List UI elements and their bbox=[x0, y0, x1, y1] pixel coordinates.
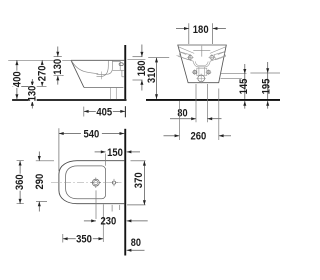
plan outer outline bbox=[59, 161, 124, 204]
svg-text:130: 130 bbox=[27, 86, 39, 102]
svg-text:80: 80 bbox=[131, 237, 141, 249]
svg-text:370: 370 bbox=[133, 172, 145, 188]
svg-text:195: 195 bbox=[260, 79, 272, 95]
waste pipe lines below bidet (side) bbox=[111, 87, 117, 99]
reference line A (drain bolts level) bbox=[221, 73, 247, 75]
bolt hole right (front) bbox=[207, 71, 210, 74]
overflow tick on basin (side) bbox=[100, 72, 102, 80]
svg-text:260: 260 bbox=[191, 131, 207, 143]
extension: faucet centre down bbox=[95, 190, 97, 219]
underside extension line (left) bbox=[13, 85, 47, 87]
plan inner basin bbox=[66, 166, 106, 199]
dimension 195 bbox=[260, 62, 272, 109]
svg-text:150: 150 bbox=[107, 147, 123, 159]
svg-text:145: 145 bbox=[238, 79, 250, 95]
small hole (plan) bbox=[112, 181, 115, 184]
svg-text:130: 130 bbox=[52, 59, 64, 75]
drain hole (front) bbox=[198, 75, 205, 82]
extension: basin right edge up to 150 dim bbox=[103, 154, 119, 243]
dimension 145 bbox=[238, 64, 250, 109]
front view outline bbox=[178, 45, 227, 83]
svg-text:540: 540 bbox=[84, 128, 100, 140]
wall (plan view) bbox=[124, 129, 126, 256]
reference line C (right, 195 level) bbox=[250, 72, 280, 74]
extension lines below front view (80 dim) bbox=[196, 84, 207, 122]
svg-text:400: 400 bbox=[11, 71, 23, 87]
dimension 350 bbox=[63, 234, 104, 246]
riser box (side) bbox=[113, 61, 121, 70]
wall stub for 405 bbox=[124, 106, 126, 117]
svg-text:290: 290 bbox=[34, 174, 46, 190]
dimension 360 bbox=[14, 161, 26, 204]
basin inner curve (side) bbox=[71, 60, 98, 73]
right wing boss bbox=[214, 52, 225, 60]
floor line (side view) bbox=[12, 99, 126, 101]
faucet cross (front) bbox=[193, 46, 210, 57]
svg-text:180: 180 bbox=[193, 24, 209, 36]
svg-text:310: 310 bbox=[146, 67, 158, 83]
inner corner lines right bbox=[210, 47, 226, 55]
centerline (plan) bbox=[51, 182, 122, 184]
dimension 130 lower (side view) bbox=[22, 79, 39, 109]
trap pipe inner wall (side) bbox=[97, 61, 113, 75]
dimension 405 bbox=[84, 106, 125, 118]
extension lines for 260 bbox=[179, 89, 218, 141]
svg-text:270: 270 bbox=[37, 66, 49, 82]
reference line between views (for 180 left dim) bbox=[127, 58, 145, 60]
trap pipe outer wall (side) bbox=[97, 61, 109, 77]
faucet hole (plan) bbox=[92, 179, 99, 186]
reference line B (drain level) bbox=[221, 78, 243, 80]
wall (side view) bbox=[124, 45, 126, 99]
svg-text:405: 405 bbox=[96, 106, 112, 118]
inner corner lines left bbox=[178, 47, 194, 55]
dimension 130 upper (side view) bbox=[52, 47, 64, 85]
bidet underside bbox=[85, 86, 124, 88]
supply pipe at wall (side) bbox=[122, 70, 124, 77]
bidet rim top (side) bbox=[71, 59, 124, 61]
mounting stub line upper (side) bbox=[120, 69, 124, 71]
dimension 230 bbox=[84, 216, 148, 228]
tap hole oval (side) bbox=[119, 63, 123, 66]
fixing hole right bbox=[210, 55, 214, 59]
dimension 150 bbox=[95, 147, 140, 159]
svg-text:80: 80 bbox=[177, 108, 187, 120]
fixing hole left bbox=[188, 55, 192, 59]
svg-text:360: 360 bbox=[14, 174, 26, 190]
drain box (front) bbox=[197, 68, 207, 75]
dimension 540 bbox=[59, 128, 124, 171]
310 top reference line bbox=[148, 57, 169, 59]
bowl outline (front) bbox=[193, 61, 210, 67]
dimension 400 bbox=[11, 60, 23, 99]
dimension 80 (plan) bbox=[127, 237, 145, 252]
svg-text:350: 350 bbox=[76, 234, 92, 246]
left wing boss bbox=[179, 52, 190, 60]
dimension 180 top bbox=[176, 23, 226, 44]
dimension 260 bbox=[164, 131, 232, 143]
rim extension line bbox=[8, 59, 71, 61]
bidet nose front slant bbox=[71, 60, 85, 87]
dimension 290 bbox=[34, 152, 54, 212]
dimension 370 bbox=[127, 161, 146, 205]
dimension 310 bbox=[146, 58, 158, 99]
bowl funnel diagonals (front) bbox=[177, 56, 226, 62]
dimension 270 bbox=[37, 60, 49, 86]
dimension 80 (front) bbox=[170, 108, 222, 121]
svg-text:230: 230 bbox=[101, 216, 117, 228]
dimension 180 (front left) bbox=[133, 45, 149, 91]
floor line (front view) bbox=[146, 99, 280, 101]
bolt hole left (front) bbox=[193, 71, 196, 74]
